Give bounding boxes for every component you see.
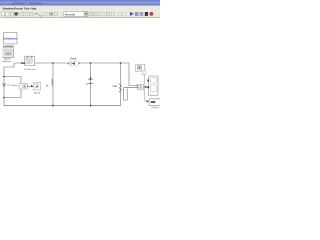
svg-text:Format: Format [15,7,23,10]
svg-text:Simulation: Simulation [3,7,16,10]
svg-text:C: C [86,83,88,86]
svg-text:DC Source: DC Source [8,84,19,87]
svg-text:Help: Help [31,7,37,10]
svg-text:Tools: Tools [24,7,31,10]
svg-text:Diode: Diode [70,57,77,60]
svg-text:Display: Display [152,107,160,109]
svg-text:reference: reference [2,60,12,63]
svg-text:Continuous: Continuous [3,37,18,41]
svg-text:DC Machine: DC Machine [24,69,37,71]
svg-text:Speed: Speed [34,92,41,94]
svg-text:Normal: Normal [65,12,75,16]
svg-text:untitled * - Simulink: untitled * - Simulink [12,1,43,5]
svg-text:load: load [113,86,118,88]
